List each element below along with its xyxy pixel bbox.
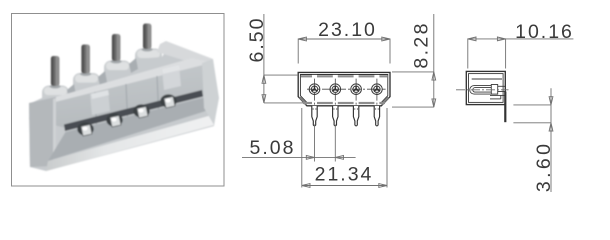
- svg-text:8.28: 8.28: [411, 21, 433, 69]
- svg-text:23.10: 23.10: [318, 19, 377, 41]
- svg-text:6.50: 6.50: [246, 17, 268, 63]
- svg-text:3.60: 3.60: [533, 141, 555, 193]
- svg-text:10.16: 10.16: [515, 21, 574, 43]
- svg-text:21.34: 21.34: [315, 164, 374, 186]
- svg-text:5.08: 5.08: [250, 137, 296, 159]
